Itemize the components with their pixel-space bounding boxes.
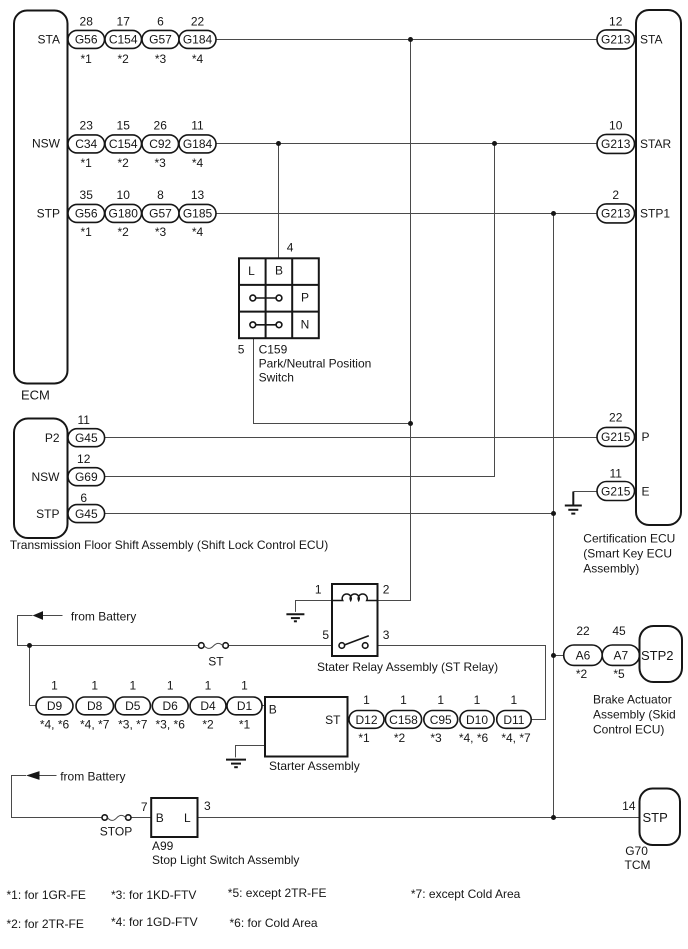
svg-text:10: 10: [609, 119, 623, 133]
svg-text:1: 1: [205, 679, 212, 693]
switch contact P row: [250, 295, 282, 301]
svg-text:ST: ST: [208, 655, 224, 669]
connector C95 pin 1: [424, 693, 458, 745]
svg-text:A7: A7: [613, 649, 628, 663]
junction NSW / shift lock branch: [492, 141, 497, 146]
svg-text:22: 22: [191, 14, 205, 28]
svg-text:D11: D11: [503, 713, 524, 727]
svg-text:*4, *7: *4, *7: [501, 731, 531, 745]
svg-text:Stop Light Switch Assembly: Stop Light Switch Assembly: [152, 853, 299, 867]
connector G185 pin 13 (STP row): [179, 188, 216, 239]
wire NSW to shift lock NSW G69: [105, 144, 495, 477]
svg-text:1: 1: [241, 679, 248, 693]
svg-text:G45: G45: [75, 431, 98, 445]
Transmission Floor Shift block: [14, 419, 68, 539]
wire A99 L to TCM STP: [198, 817, 640, 819]
svg-text:22: 22: [609, 411, 623, 425]
wire G215 E to ground: [574, 491, 598, 493]
svg-text:1: 1: [51, 679, 58, 693]
svg-text:D4: D4: [200, 699, 216, 713]
svg-text:P2: P2: [45, 431, 60, 445]
connector D9 pin 1: [36, 679, 73, 732]
svg-text:*3: *3: [155, 225, 167, 239]
wire relay pin 3 to D11: [378, 646, 546, 720]
ST switch: [199, 643, 229, 649]
connector C158 pin 1: [385, 693, 421, 745]
connector G57 pin 8 (STP row): [142, 188, 179, 239]
svg-text:STP: STP: [37, 207, 60, 221]
switch contact N row: [250, 322, 282, 328]
wire D1 to starter B: [262, 705, 265, 707]
wire STP vertical trunk: [553, 214, 555, 818]
park/neutral position switch C159: [239, 258, 319, 338]
svg-text:14: 14: [622, 799, 636, 813]
svg-text:STP1: STP1: [640, 207, 670, 221]
wire relay pin 1 to ground: [296, 601, 333, 612]
ECM block: [14, 11, 68, 384]
connector G69 pin 12 (NSW): [68, 452, 105, 486]
wire battery feed top: [18, 616, 199, 646]
starter assembly box: [265, 697, 348, 757]
svg-text:Starter Assembly: Starter Assembly: [269, 759, 360, 773]
connector G215 pin 22 (P): [597, 411, 635, 447]
svg-text:C34: C34: [75, 137, 97, 151]
connector D8 pin 1: [76, 679, 114, 732]
svg-text:22: 22: [576, 624, 590, 638]
wire NSW to park/neutral switch pin 4: [278, 144, 280, 259]
svg-text:G213: G213: [601, 33, 631, 47]
svg-text:Brake Actuator: Brake Actuator: [593, 693, 672, 707]
svg-text:1: 1: [363, 693, 370, 707]
svg-text:ST: ST: [325, 713, 341, 727]
connector A7 pin 45: [602, 624, 639, 681]
svg-text:*2: *2: [118, 225, 130, 239]
svg-text:*3: for 1KD-FTV: *3: for 1KD-FTV: [111, 888, 196, 902]
svg-text:Park/Neutral Position: Park/Neutral Position: [259, 356, 372, 370]
junction pin5 wire / STA vertical: [408, 421, 413, 426]
wire shift lock STP G45 to trunk: [105, 513, 554, 515]
svg-text:*1: for 1GR-FE: *1: for 1GR-FE: [7, 888, 86, 902]
svg-text:D9: D9: [47, 699, 63, 713]
svg-text:D8: D8: [87, 699, 103, 713]
svg-text:23: 23: [80, 119, 94, 133]
svg-text:*4: *4: [192, 52, 204, 66]
connector C154 pin 17 (STA row): [105, 14, 142, 66]
svg-text:*4: for 1GD-FTV: *4: for 1GD-FTV: [111, 915, 198, 929]
svg-text:L: L: [248, 264, 255, 278]
stop light switch A99 box: [151, 798, 197, 837]
connector G213 pin 12 (STA): [597, 14, 635, 49]
connector G45 pin 11 (P2): [68, 413, 105, 447]
svg-text:6: 6: [80, 491, 87, 505]
STOP switch: [102, 815, 131, 821]
svg-text:*2: *2: [576, 667, 588, 681]
svg-text:3: 3: [383, 628, 390, 642]
svg-text:D6: D6: [163, 699, 179, 713]
ground at starter: [226, 760, 246, 768]
svg-text:Assembly): Assembly): [583, 562, 639, 576]
svg-text:*7: except Cold Area: *7: except Cold Area: [411, 887, 521, 901]
svg-text:STAR: STAR: [640, 137, 671, 151]
svg-text:1: 1: [474, 693, 481, 707]
connector D5 pin 1: [115, 679, 150, 732]
svg-text:Certification ECU: Certification ECU: [583, 532, 675, 546]
svg-text:P: P: [642, 430, 650, 444]
svg-text:1: 1: [167, 679, 174, 693]
connector G180 pin 10 (STP row): [105, 188, 142, 239]
svg-text:*2: *2: [118, 52, 130, 66]
svg-text:from Battery: from Battery: [71, 610, 136, 624]
svg-text:D5: D5: [125, 699, 141, 713]
svg-text:10: 10: [117, 188, 131, 202]
svg-text:G45: G45: [75, 507, 98, 521]
svg-text:35: 35: [80, 188, 94, 202]
svg-text:D1: D1: [237, 699, 253, 713]
svg-text:1: 1: [91, 679, 98, 693]
svg-text:45: 45: [612, 624, 626, 638]
svg-text:28: 28: [80, 14, 94, 28]
svg-text:5: 5: [238, 343, 245, 357]
wire ST switch to relay pin 5: [228, 645, 332, 647]
svg-text:4: 4: [287, 241, 294, 255]
svg-text:STP2: STP2: [641, 648, 674, 663]
connector C34 pin 23 (NSW row): [68, 119, 105, 170]
svg-text:STA: STA: [38, 33, 60, 47]
svg-text:STOP: STOP: [100, 824, 132, 838]
wire STP row ECM to G213: [216, 213, 597, 215]
svg-text:G180: G180: [109, 207, 139, 221]
Certification ECU block: [636, 10, 681, 525]
svg-text:13: 13: [191, 188, 205, 202]
svg-text:NSW: NSW: [32, 470, 61, 484]
connector D1 pin 1: [227, 679, 262, 732]
wire STOP switch to A99 B: [131, 817, 151, 819]
svg-text:*5: *5: [613, 667, 625, 681]
svg-text:*4, *6: *4, *6: [459, 731, 489, 745]
svg-text:STP: STP: [643, 810, 668, 825]
svg-text:STP: STP: [36, 507, 59, 521]
svg-text:Stater Relay Assembly (ST Rela: Stater Relay Assembly (ST Relay): [317, 660, 498, 674]
svg-text:G57: G57: [149, 33, 172, 47]
connector D12 pin 1: [349, 693, 384, 745]
wire trunk to brake A6: [554, 655, 564, 657]
svg-text:*3: *3: [155, 156, 167, 170]
ground at G215 E: [565, 492, 582, 514]
svg-text:15: 15: [117, 119, 131, 133]
svg-text:1: 1: [437, 693, 444, 707]
ground at relay pin 1: [286, 614, 304, 621]
connector G184 pin 22 (STA row): [179, 14, 216, 66]
svg-text:7: 7: [141, 800, 148, 814]
svg-text:17: 17: [117, 14, 131, 28]
svg-text:*1: *1: [81, 52, 93, 66]
svg-text:11: 11: [191, 119, 204, 133]
junction trunk / brake A6: [551, 653, 556, 658]
svg-text:TCM: TCM: [625, 858, 651, 872]
wire STA to ST relay pin 2: [378, 40, 411, 601]
junction battery / D9 branch: [27, 643, 32, 648]
svg-text:G213: G213: [601, 137, 631, 151]
svg-text:C154: C154: [109, 33, 138, 47]
connector C154 pin 15 (NSW row): [105, 119, 142, 170]
wire P2 G45 to G215 P: [105, 437, 597, 439]
wire starter ST to D12: [348, 719, 350, 721]
svg-text:*4: *4: [192, 156, 204, 170]
svg-text:G215: G215: [601, 484, 631, 498]
svg-text:8: 8: [157, 188, 164, 202]
svg-text:*6: for Cold Area: *6: for Cold Area: [230, 916, 318, 930]
svg-text:12: 12: [77, 452, 91, 466]
svg-text:5: 5: [322, 628, 329, 642]
svg-text:*3, *7: *3, *7: [118, 718, 148, 732]
svg-text:G185: G185: [183, 207, 213, 221]
svg-text:*2: for 2TR-FE: *2: for 2TR-FE: [7, 917, 84, 931]
connector G213 pin 10 (STAR): [597, 119, 635, 154]
svg-text:C92: C92: [149, 137, 171, 151]
connector D6 pin 1: [152, 679, 188, 732]
svg-text:G57: G57: [149, 207, 172, 221]
svg-text:C158: C158: [389, 713, 418, 727]
svg-text:*4, *7: *4, *7: [80, 718, 110, 732]
connector G45 pin 6 (STP): [68, 491, 105, 523]
svg-text:2: 2: [383, 582, 390, 596]
svg-text:C95: C95: [430, 713, 452, 727]
svg-text:11: 11: [77, 413, 90, 427]
svg-text:1: 1: [315, 582, 322, 596]
svg-text:B: B: [275, 263, 283, 277]
svg-text:1: 1: [129, 679, 136, 693]
connector D10 pin 1: [459, 693, 494, 745]
svg-text:1: 1: [511, 693, 518, 707]
wire starter ground lead: [236, 746, 266, 758]
svg-text:*1: *1: [81, 156, 93, 170]
svg-text:*1: *1: [81, 225, 93, 239]
svg-text:G184: G184: [183, 33, 213, 47]
wire park/neutral pin 5 to STA vertical: [254, 338, 411, 423]
svg-text:D10: D10: [466, 713, 488, 727]
svg-text:G215: G215: [601, 430, 631, 444]
connector C92 pin 26 (NSW row): [142, 119, 179, 170]
wire STA row ECM to G213: [216, 39, 597, 41]
wire battery feed bottom: [12, 776, 103, 818]
connector G215 pin 11 (E): [597, 467, 635, 501]
svg-text:*3, *6: *3, *6: [156, 718, 186, 732]
svg-text:G70: G70: [625, 844, 648, 858]
svg-text:3: 3: [204, 799, 211, 813]
svg-text:*1: *1: [358, 731, 370, 745]
svg-text:1: 1: [400, 693, 407, 707]
svg-text:ECM: ECM: [21, 388, 50, 403]
svg-text:2: 2: [612, 188, 619, 202]
connector G213 pin 2 (STP1): [597, 188, 635, 223]
svg-text:B: B: [269, 703, 277, 717]
svg-text:Switch: Switch: [259, 370, 294, 384]
svg-text:*3: *3: [430, 731, 442, 745]
svg-text:L: L: [184, 811, 191, 825]
svg-text:Assembly (Skid: Assembly (Skid: [593, 708, 676, 722]
svg-text:C154: C154: [109, 137, 138, 151]
battery arrow top: [33, 611, 43, 620]
starter relay ST: [332, 584, 378, 656]
svg-text:C159: C159: [259, 342, 288, 356]
svg-text:Transmission Floor Shift Assem: Transmission Floor Shift Assembly (Shift…: [10, 538, 328, 552]
svg-text:12: 12: [609, 14, 623, 28]
wire NSW row ECM to G213: [216, 143, 597, 145]
junction STP / trunk: [551, 211, 556, 216]
svg-text:N: N: [301, 318, 310, 332]
svg-text:11: 11: [609, 467, 622, 481]
junction STA / relay branch: [408, 37, 413, 42]
svg-text:G213: G213: [601, 207, 631, 221]
connector G57 pin 6 (STA row): [142, 14, 179, 66]
svg-text:*3: *3: [155, 52, 167, 66]
svg-text:*2: *2: [202, 718, 214, 732]
svg-text:G184: G184: [183, 137, 213, 151]
battery arrow bottom: [26, 771, 39, 780]
svg-text:G56: G56: [75, 33, 98, 47]
svg-text:B: B: [156, 811, 164, 825]
TCM STP block: [640, 789, 681, 846]
svg-text:A99: A99: [152, 839, 174, 853]
junction trunk / shift lock STP: [551, 511, 556, 516]
svg-text:from Battery: from Battery: [60, 770, 125, 784]
svg-text:(Smart Key ECU: (Smart Key ECU: [583, 547, 672, 561]
connector D11 pin 1: [497, 693, 532, 745]
connector A6 pin 22: [564, 624, 603, 681]
svg-text:*2: *2: [394, 731, 406, 745]
connector G184 pin 11 (NSW row): [179, 119, 216, 170]
svg-text:*4, *6: *4, *6: [40, 718, 70, 732]
svg-text:6: 6: [157, 14, 164, 28]
svg-text:Control ECU): Control ECU): [593, 723, 664, 737]
junction NSW / switch pin 4 branch: [276, 141, 281, 146]
brake actuator STP2 block: [640, 626, 683, 682]
svg-text:E: E: [642, 484, 650, 498]
junction trunk / stop light row: [551, 815, 556, 820]
svg-text:26: 26: [154, 119, 168, 133]
svg-text:STA: STA: [640, 33, 662, 47]
svg-text:NSW: NSW: [32, 137, 61, 151]
svg-text:A6: A6: [576, 649, 591, 663]
svg-text:*1: *1: [239, 718, 251, 732]
svg-text:*4: *4: [192, 225, 204, 239]
svg-text:G56: G56: [75, 207, 98, 221]
connector D4 pin 1: [190, 679, 226, 732]
svg-text:D12: D12: [355, 713, 377, 727]
svg-text:G69: G69: [75, 470, 98, 484]
wire battery branch to D9: [30, 646, 37, 706]
svg-text:*2: *2: [118, 156, 130, 170]
connector G56 pin 35 (STP row): [68, 188, 105, 239]
svg-text:*5: except 2TR-FE: *5: except 2TR-FE: [228, 886, 327, 900]
connector G56 pin 28 (STA row): [68, 14, 105, 66]
svg-text:P: P: [301, 291, 309, 305]
